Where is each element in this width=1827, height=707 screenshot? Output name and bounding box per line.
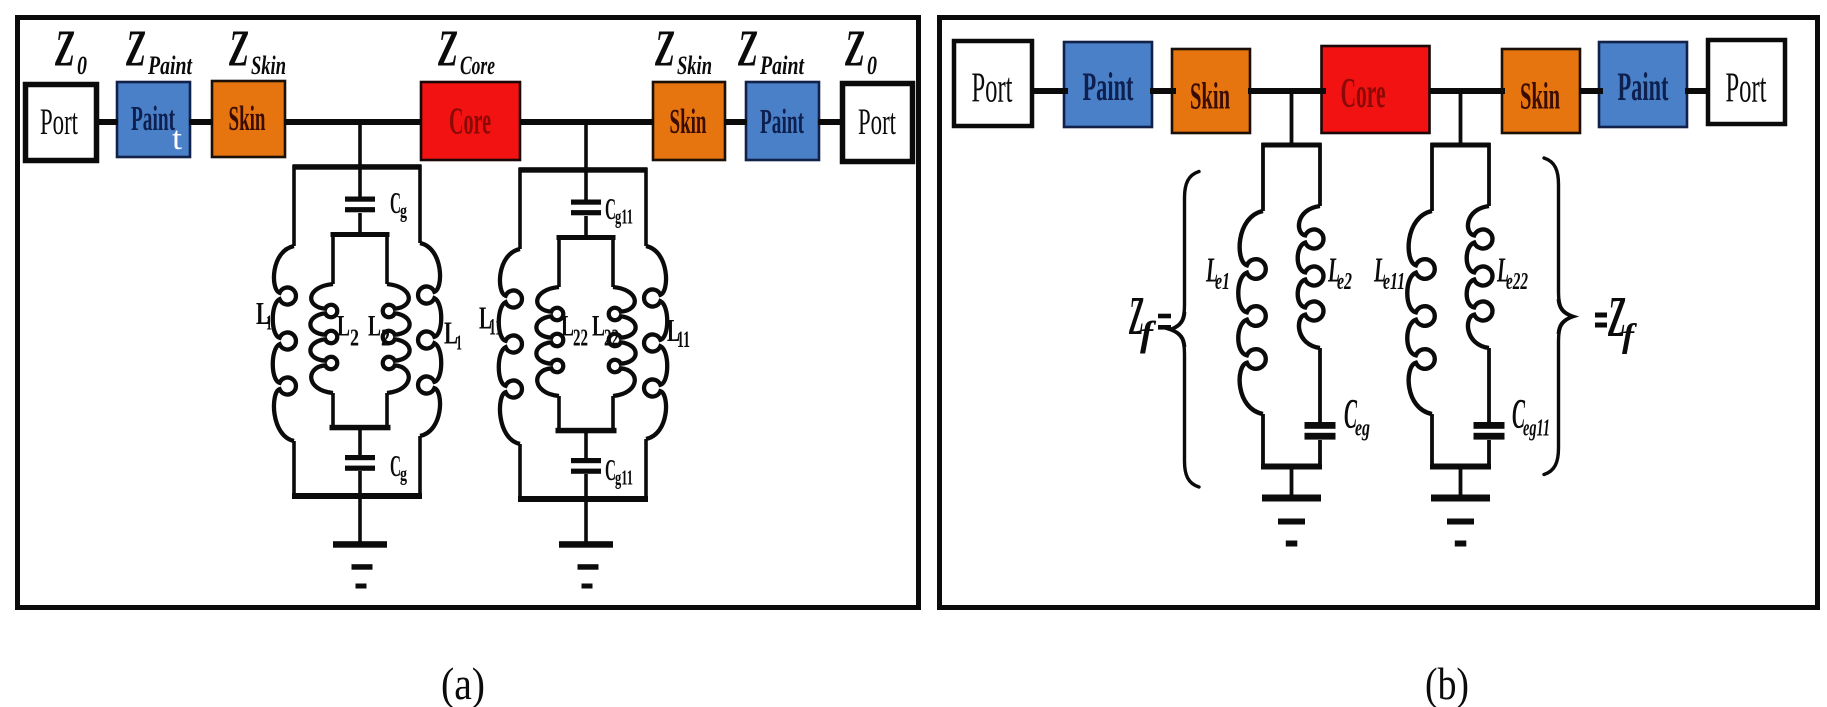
skin box (b, left) xyxy=(1172,49,1250,133)
svg-text:1: 1 xyxy=(456,331,462,355)
paint box (b, left) xyxy=(1064,42,1152,127)
port box P2 (a, right) xyxy=(843,84,913,162)
svg-text:2: 2 xyxy=(350,326,359,352)
svg-text:22: 22 xyxy=(604,326,619,352)
wire: capacitor to inner top bar xyxy=(358,213,362,235)
wire Skin1-Core (a) xyxy=(284,119,422,125)
wire: branch top bar (b) xyxy=(1262,143,1322,148)
svg-text:22: 22 xyxy=(573,326,588,352)
wire: capacitor to outer bottom bar xyxy=(584,474,588,500)
wire: right side lower (b) xyxy=(1487,440,1491,468)
wire Core-Skin2 (a) xyxy=(519,119,654,125)
capacitor top plates xyxy=(345,197,375,202)
capacitor plates (b) xyxy=(1474,422,1505,429)
ground (b) xyxy=(1431,495,1490,502)
svg-text:Paint: Paint xyxy=(1618,64,1669,109)
wire: drop from main line to branch xyxy=(584,122,588,171)
inductor inner left coil xyxy=(536,287,563,396)
inductor outer right coil xyxy=(418,243,441,436)
wire: inner bottom bar to capacitor xyxy=(358,428,362,456)
inductor right coil (b) xyxy=(1298,206,1324,348)
paint box (a, left) xyxy=(117,82,190,157)
wire: inner left side upper xyxy=(557,236,561,287)
svg-text:e2: e2 xyxy=(1337,269,1352,295)
wire: outer left side upper xyxy=(518,168,522,249)
port box P2 (b, right) xyxy=(1708,40,1785,124)
inductor left coil (b) xyxy=(1407,211,1434,414)
svg-text:2: 2 xyxy=(381,326,390,352)
ground xyxy=(333,541,387,548)
capacitor bottom plates xyxy=(571,458,601,463)
left curly brace (Zf) xyxy=(1171,172,1200,488)
svg-text:0: 0 xyxy=(77,51,87,80)
wire: right side lower (b) xyxy=(1318,440,1322,468)
svg-text:Skin: Skin xyxy=(251,51,286,80)
svg-text:Port: Port xyxy=(858,102,896,143)
wire: stem top bar to capacitor xyxy=(584,170,588,201)
wire Port1-Paint1 (b) xyxy=(1032,88,1068,94)
svg-text:1: 1 xyxy=(266,311,272,335)
svg-text:Core: Core xyxy=(460,51,495,80)
wire Paint1-Skin1 (b) xyxy=(1150,88,1176,94)
svg-text:Skin: Skin xyxy=(670,102,707,141)
svg-text:11: 11 xyxy=(489,315,502,340)
svg-text:Port: Port xyxy=(40,102,78,143)
wire: capacitor to inner top bar xyxy=(584,216,588,238)
wire: inner right side upper xyxy=(611,236,615,287)
svg-text:Z: Z xyxy=(654,21,675,78)
wire: drop from main line to branch xyxy=(358,122,362,168)
wire: drop from main line (b) xyxy=(1459,91,1463,146)
svg-text:t: t xyxy=(172,121,182,157)
wire: inner rect bottom bar xyxy=(556,428,617,434)
paint box (a, right) xyxy=(746,82,819,160)
ground (b) xyxy=(1262,495,1321,502)
wire: capacitor to outer bottom bar xyxy=(358,471,362,497)
svg-text:Paint: Paint xyxy=(760,102,804,141)
wire: left side upper (b) xyxy=(1261,143,1265,211)
wire: outer right side lower xyxy=(418,436,422,497)
wire: inner rect top bar xyxy=(331,232,390,237)
wire: branch top bar (b) xyxy=(1431,143,1491,148)
wire: stem to ground (b) xyxy=(1459,466,1463,496)
wire: left side lower (b) xyxy=(1261,414,1265,468)
panel (a) outer frame xyxy=(18,18,919,608)
svg-text:eg: eg xyxy=(1355,416,1370,442)
wire: branch outer top bar xyxy=(293,164,422,170)
svg-text:eg11: eg11 xyxy=(1523,416,1550,442)
wire: right side upper (b) xyxy=(1487,143,1491,206)
wire: branch bottom bar (b) xyxy=(1261,464,1322,470)
wire: outer left side lower xyxy=(292,441,296,497)
capacitor bottom plates xyxy=(345,455,375,460)
wire: branch outer top bar xyxy=(519,167,648,173)
wire: inner left side lower xyxy=(331,393,335,428)
wire: branch outer bottom bar xyxy=(518,496,648,502)
svg-text:Port: Port xyxy=(972,66,1013,112)
svg-text:e11: e11 xyxy=(1383,269,1405,295)
core box (b) xyxy=(1322,46,1430,133)
svg-text:g: g xyxy=(400,199,407,223)
svg-text:Z: Z xyxy=(228,21,249,78)
port box P1 (a, left) xyxy=(26,85,97,161)
svg-text:e22: e22 xyxy=(1506,269,1528,295)
svg-text:f: f xyxy=(1140,314,1156,354)
svg-text:Z: Z xyxy=(844,21,865,78)
core box (a) xyxy=(421,82,520,160)
svg-text:11: 11 xyxy=(677,327,690,352)
wire: inner rect bottom bar xyxy=(330,425,391,431)
wire: outer left side upper xyxy=(292,165,296,246)
wire: stem to ground (b) xyxy=(1290,466,1294,496)
svg-text:g: g xyxy=(400,462,407,486)
capacitor top plates xyxy=(571,200,601,205)
svg-text:(a): (a) xyxy=(441,658,485,707)
wire: right side mid (b) xyxy=(1487,348,1491,423)
svg-text:e1: e1 xyxy=(1215,269,1230,295)
wire: inner right side lower xyxy=(611,396,615,431)
wire Port1-Paint1 (a) xyxy=(96,119,118,125)
wire: right side upper (b) xyxy=(1318,143,1322,206)
wire: outer right side upper xyxy=(644,168,648,246)
svg-text:g11: g11 xyxy=(615,205,633,229)
inductor inner right coil xyxy=(609,287,636,396)
svg-text:Skin: Skin xyxy=(229,99,266,138)
wire: inner bottom bar to capacitor xyxy=(584,431,588,459)
wire: branch bottom bar (b) xyxy=(1430,464,1491,470)
svg-text:Skin: Skin xyxy=(1190,76,1230,118)
wire: inner rect top bar xyxy=(557,235,616,240)
paint box (b, right) xyxy=(1599,42,1687,127)
svg-text:Paint: Paint xyxy=(1083,64,1134,109)
wire: branch outer bottom bar xyxy=(292,493,422,499)
wire Paint2-Port2 (a) xyxy=(818,119,844,125)
wire Paint1-Skin1 (a) xyxy=(189,119,213,125)
equals sign (right) xyxy=(1595,313,1607,318)
skin box (b, right) xyxy=(1502,49,1580,133)
svg-text:Z: Z xyxy=(54,21,75,78)
wire Paint2-Port2 (b) xyxy=(1685,88,1710,94)
svg-text:Z: Z xyxy=(125,21,146,78)
svg-text:Z: Z xyxy=(437,21,458,78)
svg-text:Port: Port xyxy=(1726,66,1767,112)
svg-text:Skin: Skin xyxy=(677,51,712,80)
svg-text:Core: Core xyxy=(449,101,491,143)
svg-text:L: L xyxy=(337,310,350,343)
wire: stem to ground xyxy=(584,499,588,542)
ground xyxy=(559,541,613,548)
inductor inner right coil xyxy=(383,284,410,393)
wire Skin1-Core (b) xyxy=(1248,88,1326,94)
svg-text:0: 0 xyxy=(867,51,877,80)
inductor outer right coil xyxy=(644,246,667,439)
equals sign (left) xyxy=(1158,314,1171,319)
inductor left coil (b) xyxy=(1238,211,1265,414)
wire: stem to ground xyxy=(358,496,362,542)
svg-text:Core: Core xyxy=(1341,71,1386,117)
right curly brace (Zf) xyxy=(1544,158,1573,475)
inductor inner left coil xyxy=(310,284,337,393)
wire: inner left side lower xyxy=(557,396,561,431)
capacitor plates (b) xyxy=(1305,422,1336,429)
skin box (a, right) xyxy=(653,82,725,160)
wire: drop from main line (b) xyxy=(1290,91,1294,146)
skin box (a, left) xyxy=(212,81,285,157)
wire: inner right side lower xyxy=(385,393,389,428)
inductor outer left coil xyxy=(273,246,296,441)
inductor outer left coil xyxy=(499,249,522,444)
wire: stem top bar to capacitor xyxy=(358,167,362,198)
port box P1 (b, left) xyxy=(954,41,1032,126)
wire: left side lower (b) xyxy=(1430,414,1434,468)
svg-text:g11: g11 xyxy=(615,466,633,490)
wire: outer left side lower xyxy=(518,444,522,500)
svg-text:Paint: Paint xyxy=(147,51,192,80)
wire: right side mid (b) xyxy=(1318,348,1322,423)
wire: left side upper (b) xyxy=(1430,143,1434,211)
wire Core-Skin2 (b) xyxy=(1430,88,1505,94)
inductor right coil (b) xyxy=(1467,206,1493,348)
svg-text:Skin: Skin xyxy=(1520,76,1560,118)
wire: outer right side upper xyxy=(418,165,422,243)
wire Skin2-Paint2 (a) xyxy=(724,119,747,125)
svg-text:Paint: Paint xyxy=(759,51,804,80)
wire: inner right side upper xyxy=(385,233,389,284)
svg-text:f: f xyxy=(1622,318,1638,355)
wire: outer right side lower xyxy=(644,439,648,500)
svg-text:Paint: Paint xyxy=(131,99,175,138)
wire Skin2-Paint2 (b) xyxy=(1579,88,1603,94)
svg-text:(b): (b) xyxy=(1425,658,1469,707)
svg-text:Z: Z xyxy=(737,21,758,78)
panel (b) outer frame xyxy=(940,18,1818,608)
wire: inner left side upper xyxy=(331,233,335,284)
svg-text:L: L xyxy=(368,310,381,343)
